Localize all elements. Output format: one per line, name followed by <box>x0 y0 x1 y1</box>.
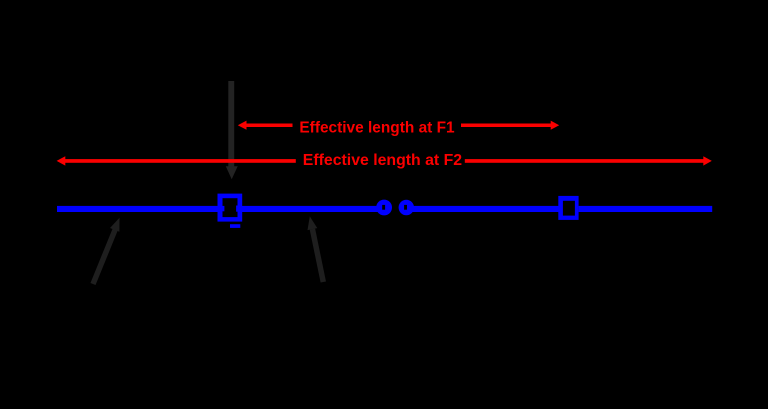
second wire pointer arrow (dark diagonal arrow, center) <box>308 216 324 282</box>
svg-text:Effective length at F2: Effective length at F2 <box>303 152 463 169</box>
trap box <box>558 196 578 220</box>
wire segment: feed-point box to left insulator bead <box>236 206 384 212</box>
svg-text:Effective length at F1: Effective length at F1 <box>299 119 455 136</box>
wire pointer arrow (dark diagonal arrow, lower left) <box>93 218 120 284</box>
feed-point box (center insulator with feed gap) <box>218 194 243 222</box>
feed-line stub below feed-point box <box>230 224 240 228</box>
wire segment: right insulator bead to trap box <box>406 206 559 212</box>
dimension arrow: Effective length at F1 <box>238 121 559 130</box>
right insulator bead <box>399 200 414 215</box>
left insulator bead <box>376 200 392 216</box>
dimension arrow: Effective length at F2 <box>57 156 712 165</box>
wire segment: left end to feed-point box <box>57 206 225 212</box>
wire segment: trap box to right end <box>579 206 713 212</box>
feed-point pointer arrow (dark vertical arrow) <box>226 81 238 179</box>
